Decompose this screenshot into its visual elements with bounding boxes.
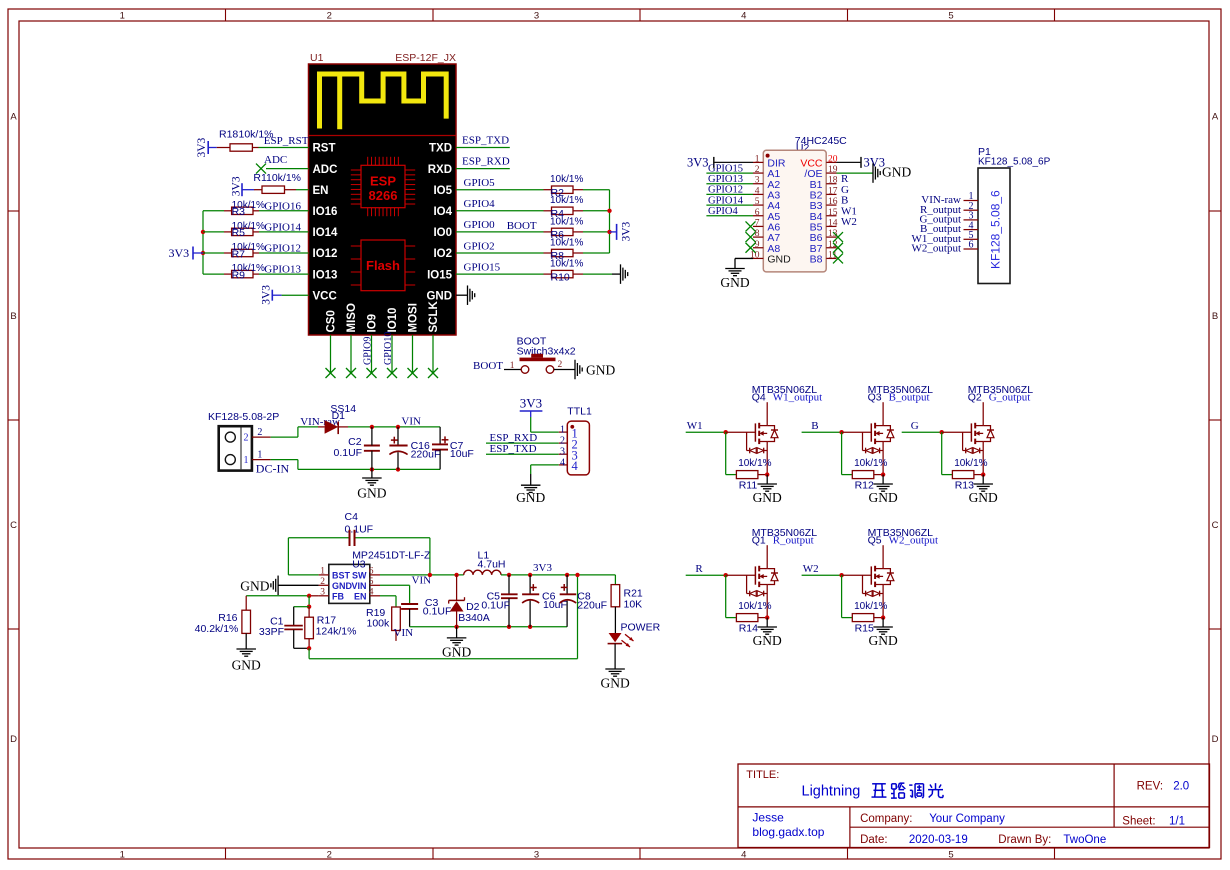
svg-text:GND: GND <box>586 362 615 377</box>
svg-text:B: B <box>10 311 16 322</box>
svg-text:DC-IN: DC-IN <box>256 462 290 476</box>
svg-text:2: 2 <box>558 360 563 370</box>
svg-text:R14: R14 <box>739 623 758 635</box>
svg-text:3V3: 3V3 <box>621 221 633 241</box>
svg-text:D: D <box>1212 734 1219 745</box>
svg-text:SW: SW <box>352 571 367 581</box>
svg-text:GPIO16: GPIO16 <box>264 200 301 212</box>
svg-text:SCLK: SCLK <box>428 301 440 333</box>
svg-text:R10: R10 <box>551 271 570 283</box>
svg-text:C: C <box>1212 520 1219 531</box>
svg-text:0.1UF: 0.1UF <box>334 447 363 459</box>
svg-text:ESP_TXD: ESP_TXD <box>490 443 537 455</box>
svg-text:IO10: IO10 <box>387 308 399 333</box>
svg-text:BOOT: BOOT <box>473 360 503 372</box>
svg-text:GPIO2: GPIO2 <box>464 240 495 252</box>
svg-text:0.1UF: 0.1UF <box>481 600 510 612</box>
svg-text:VIN: VIN <box>394 627 414 639</box>
svg-text:GPIO12: GPIO12 <box>264 243 301 255</box>
svg-text:GND: GND <box>720 275 749 290</box>
svg-text:40.2k/1%: 40.2k/1% <box>195 623 239 635</box>
svg-text:B8: B8 <box>810 254 823 266</box>
svg-text:MISO: MISO <box>346 303 358 332</box>
svg-text:2: 2 <box>244 433 249 444</box>
svg-text:10k/1%: 10k/1% <box>954 458 987 469</box>
svg-text:D: D <box>10 734 17 745</box>
svg-text:R7: R7 <box>232 248 246 260</box>
svg-text:R5: R5 <box>232 227 246 239</box>
svg-text:R13: R13 <box>955 480 974 492</box>
svg-text:14: 14 <box>828 218 838 228</box>
svg-text:GPIO5: GPIO5 <box>464 177 496 189</box>
svg-text:Switch3x4x2: Switch3x4x2 <box>517 346 576 358</box>
svg-text:C4: C4 <box>345 511 359 523</box>
svg-text:GND: GND <box>232 658 261 673</box>
svg-text:1: 1 <box>120 10 125 21</box>
svg-text:B: B <box>811 420 818 432</box>
svg-text:20: 20 <box>828 154 838 164</box>
svg-text:GND: GND <box>969 490 998 505</box>
svg-text:GND: GND <box>600 676 629 691</box>
svg-text:33PF: 33PF <box>259 626 284 638</box>
svg-text:BST: BST <box>332 571 351 581</box>
svg-text:10k/1%: 10k/1% <box>738 458 771 469</box>
svg-text:2: 2 <box>560 436 565 447</box>
svg-text:ADC: ADC <box>313 164 338 176</box>
svg-text:Jesse: Jesse <box>752 811 784 825</box>
svg-text:W1_output: W1_output <box>773 391 823 403</box>
svg-text:W2: W2 <box>803 563 819 575</box>
svg-text:GPIO10: GPIO10 <box>383 332 394 365</box>
svg-text:10k/1%: 10k/1% <box>854 458 887 469</box>
svg-text:8266: 8266 <box>369 188 398 203</box>
svg-text:Sheet:: Sheet: <box>1122 816 1155 828</box>
svg-text:100k: 100k <box>367 618 391 630</box>
svg-text:Flash: Flash <box>366 258 400 273</box>
svg-text:TITLE:: TITLE: <box>746 769 779 781</box>
svg-text:W2_output: W2_output <box>889 534 939 546</box>
svg-text:IO2: IO2 <box>433 248 452 260</box>
svg-text:IO4: IO4 <box>433 206 452 218</box>
svg-text:POWER: POWER <box>621 622 661 634</box>
svg-text:EN: EN <box>354 591 367 601</box>
svg-text:5: 5 <box>369 577 374 587</box>
svg-text:GPIO13: GPIO13 <box>264 264 301 276</box>
svg-text:RXD: RXD <box>428 164 452 176</box>
svg-text:2: 2 <box>320 577 325 587</box>
svg-text:ESP_RXD: ESP_RXD <box>462 156 510 168</box>
svg-text:VIN: VIN <box>401 416 421 428</box>
svg-text:2020-03-19: 2020-03-19 <box>909 834 968 846</box>
svg-text:2: 2 <box>327 849 332 860</box>
svg-text:7: 7 <box>755 218 760 228</box>
svg-text:GPIO14: GPIO14 <box>708 195 744 206</box>
svg-text:D1: D1 <box>332 410 346 422</box>
svg-text:REV:: REV: <box>1137 781 1163 793</box>
svg-text:18: 18 <box>828 176 838 186</box>
svg-text:GPIO12: GPIO12 <box>708 185 743 196</box>
svg-text:Q5: Q5 <box>868 534 882 546</box>
svg-text:1: 1 <box>120 849 125 860</box>
svg-text:4: 4 <box>572 459 579 473</box>
svg-text:Q3: Q3 <box>868 391 882 403</box>
svg-text:IO16: IO16 <box>313 206 338 218</box>
svg-text:W2_output: W2_output <box>912 243 962 255</box>
svg-text:10k/1%: 10k/1% <box>854 601 887 612</box>
svg-text:10k/1%: 10k/1% <box>738 601 771 612</box>
svg-text:R1: R1 <box>253 172 267 184</box>
svg-text:1: 1 <box>244 455 249 466</box>
svg-text:2: 2 <box>755 165 760 175</box>
svg-text:blog.gadx.top: blog.gadx.top <box>752 825 824 839</box>
svg-text:3: 3 <box>534 10 539 21</box>
svg-text:3V3: 3V3 <box>169 246 190 260</box>
svg-text:R11: R11 <box>739 480 758 492</box>
svg-text:C: C <box>10 520 17 531</box>
svg-text:ESP_TXD: ESP_TXD <box>462 135 509 147</box>
svg-text:4: 4 <box>369 587 374 597</box>
svg-text:3V3: 3V3 <box>687 156 709 170</box>
svg-text:19: 19 <box>828 165 838 175</box>
svg-text:R_output: R_output <box>773 534 814 546</box>
svg-text:Q4: Q4 <box>752 391 766 403</box>
svg-text:10k/1%: 10k/1% <box>550 195 583 206</box>
svg-text:3V3: 3V3 <box>520 396 542 411</box>
svg-text:3: 3 <box>320 587 325 597</box>
svg-text:A: A <box>1212 112 1219 123</box>
svg-text:Drawn By:: Drawn By: <box>998 834 1051 846</box>
svg-text:IO9: IO9 <box>367 314 379 333</box>
svg-text:GND: GND <box>426 290 452 302</box>
svg-text:GPIO9: GPIO9 <box>362 337 373 365</box>
svg-text:Q1: Q1 <box>752 534 766 546</box>
svg-text:4: 4 <box>741 10 746 21</box>
svg-text:1: 1 <box>257 450 262 461</box>
svg-text:R9: R9 <box>232 269 246 281</box>
svg-text:KF128_5.08_6P: KF128_5.08_6P <box>978 157 1051 168</box>
svg-text:2.0: 2.0 <box>1173 781 1189 793</box>
svg-text:Company:: Company: <box>860 813 912 825</box>
svg-text:IO13: IO13 <box>313 269 338 281</box>
svg-text:6: 6 <box>369 566 374 576</box>
svg-text:IO12: IO12 <box>313 248 338 260</box>
svg-text:5: 5 <box>948 849 953 860</box>
svg-text:U3: U3 <box>352 559 366 571</box>
svg-text:G: G <box>911 420 919 432</box>
svg-text:Date:: Date: <box>860 834 888 846</box>
svg-text:2: 2 <box>257 427 262 438</box>
svg-text:12: 12 <box>828 240 838 250</box>
svg-text:B_output: B_output <box>889 391 930 403</box>
svg-text:TTL1: TTL1 <box>567 406 592 418</box>
svg-text:IO5: IO5 <box>433 185 452 197</box>
svg-text:1: 1 <box>510 361 515 371</box>
svg-text:FB: FB <box>332 591 344 601</box>
svg-text:5: 5 <box>948 10 953 21</box>
svg-text:R3: R3 <box>232 206 246 218</box>
svg-text:3V3: 3V3 <box>196 137 208 157</box>
svg-text:VIN: VIN <box>351 581 366 591</box>
svg-text:ESP_RST: ESP_RST <box>264 135 309 147</box>
svg-text:1: 1 <box>320 566 325 576</box>
svg-text:220uF: 220uF <box>577 600 607 612</box>
svg-text:GPIO15: GPIO15 <box>464 261 501 273</box>
svg-text:5: 5 <box>755 197 760 207</box>
svg-text:3V3: 3V3 <box>261 285 273 305</box>
svg-text:Q2: Q2 <box>968 391 982 403</box>
svg-text:GPIO4: GPIO4 <box>464 198 496 210</box>
svg-text:GND: GND <box>882 165 911 180</box>
svg-text:GND: GND <box>357 486 386 501</box>
svg-text:KF128-5.08-2P: KF128-5.08-2P <box>208 411 279 423</box>
svg-text:16: 16 <box>828 197 838 207</box>
svg-text:10k/1%: 10k/1% <box>550 216 583 227</box>
svg-text:R12: R12 <box>855 480 874 492</box>
svg-text:3V3: 3V3 <box>231 176 243 196</box>
svg-text:6: 6 <box>969 240 974 251</box>
svg-text:4: 4 <box>741 849 746 860</box>
svg-text:1: 1 <box>560 425 565 436</box>
svg-text:BOOT: BOOT <box>507 220 537 232</box>
svg-text:B: B <box>1212 311 1218 322</box>
svg-text:11: 11 <box>828 250 837 260</box>
svg-text:IO15: IO15 <box>427 269 453 281</box>
svg-text:RST: RST <box>313 143 336 155</box>
svg-text:R18: R18 <box>219 129 238 141</box>
svg-text:4: 4 <box>560 457 565 468</box>
svg-text:A: A <box>10 112 17 123</box>
svg-text:GND: GND <box>332 581 353 591</box>
svg-text:KF128_5.08_6: KF128_5.08_6 <box>989 190 1003 269</box>
svg-text:IO14: IO14 <box>313 227 339 239</box>
svg-text:10k/1%: 10k/1% <box>550 237 583 248</box>
svg-text:ESP: ESP <box>370 174 396 189</box>
svg-text:10k/1%: 10k/1% <box>550 174 583 185</box>
svg-text:10k/1%: 10k/1% <box>266 172 301 184</box>
svg-text:GND: GND <box>442 645 471 660</box>
svg-text:R15: R15 <box>855 623 874 635</box>
svg-text:U1: U1 <box>310 52 324 64</box>
svg-text:GND: GND <box>753 490 782 505</box>
svg-text:GND: GND <box>868 633 897 648</box>
svg-text:ADC: ADC <box>264 154 287 166</box>
svg-text:W2: W2 <box>841 216 857 228</box>
svg-text:GPIO4: GPIO4 <box>708 206 739 217</box>
svg-text:10K: 10K <box>624 599 643 611</box>
svg-text:0.1UF: 0.1UF <box>423 606 452 618</box>
svg-text:3: 3 <box>534 849 539 860</box>
svg-text:R: R <box>695 563 703 575</box>
svg-text:GND: GND <box>868 490 897 505</box>
svg-text:GND: GND <box>516 490 545 505</box>
svg-text:124k/1%: 124k/1% <box>316 626 357 638</box>
svg-text:TwoOne: TwoOne <box>1063 834 1106 846</box>
svg-text:GND: GND <box>767 254 791 266</box>
svg-text:4.7uH: 4.7uH <box>478 559 506 571</box>
svg-text:13: 13 <box>828 229 838 239</box>
svg-text:10uF: 10uF <box>450 448 474 460</box>
svg-text:CS0: CS0 <box>326 310 338 332</box>
svg-text:3: 3 <box>755 176 760 186</box>
svg-text:ESP-12F_JX: ESP-12F_JX <box>395 52 456 64</box>
svg-text:GND: GND <box>753 633 782 648</box>
svg-text:6: 6 <box>755 208 760 218</box>
svg-text:GPIO13: GPIO13 <box>708 174 743 185</box>
svg-text:G_output: G_output <box>989 391 1031 403</box>
svg-text:Your Company: Your Company <box>929 813 1005 825</box>
svg-text:TXD: TXD <box>429 143 452 155</box>
svg-text:2: 2 <box>327 10 332 21</box>
svg-text:MOSI: MOSI <box>408 303 420 332</box>
svg-text:1/1: 1/1 <box>1169 816 1185 828</box>
svg-text:VIN: VIN <box>412 575 432 587</box>
svg-text:3: 3 <box>560 447 565 458</box>
svg-text:B340A: B340A <box>458 612 490 624</box>
svg-text:4: 4 <box>755 186 760 196</box>
svg-text:GPIO14: GPIO14 <box>264 221 301 233</box>
svg-text:GPIO0: GPIO0 <box>464 219 496 231</box>
svg-text:GND: GND <box>240 579 269 594</box>
svg-text:15: 15 <box>828 208 838 218</box>
svg-text:IO0: IO0 <box>433 227 452 239</box>
svg-text:3V3: 3V3 <box>533 562 552 574</box>
svg-text:1: 1 <box>755 154 760 164</box>
svg-text:10k/1%: 10k/1% <box>550 259 583 270</box>
svg-text:Lightning: Lightning <box>802 784 861 800</box>
svg-text:17: 17 <box>828 186 838 196</box>
svg-text:EN: EN <box>313 185 329 197</box>
svg-text:W1: W1 <box>687 420 703 432</box>
svg-text:GPIO15: GPIO15 <box>708 163 743 174</box>
svg-text:VCC: VCC <box>313 290 337 302</box>
